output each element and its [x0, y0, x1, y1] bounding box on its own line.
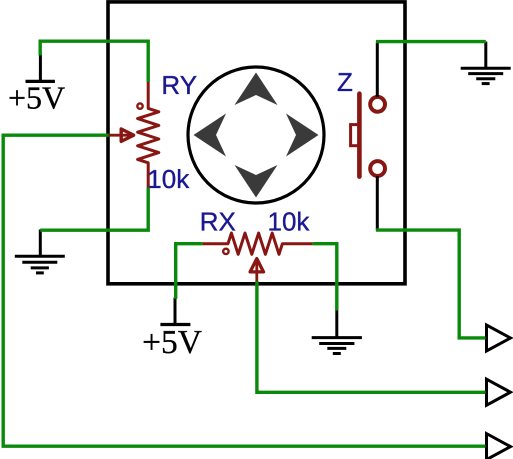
output buffer triangle 2 — [487, 379, 511, 405]
potentiometer RY body — [138, 82, 159, 188]
ground bottom-right — [312, 311, 362, 354]
wire RY wiper to left edge (green) — [3, 135, 485, 446]
pushbutton Z terminal top — [370, 97, 385, 112]
potentiometer RX body — [202, 233, 312, 254]
pushbutton Z terminal bottom — [370, 161, 385, 176]
ground left — [15, 230, 65, 273]
output buffer triangle 1 — [487, 325, 511, 351]
svg-text:10k: 10k — [268, 207, 311, 237]
wire +5V to RY top (green) — [40, 41, 148, 82]
RY wiper arrow — [109, 134, 131, 137]
RX wiper terminal dot — [223, 249, 228, 254]
RX wiper arrow — [255, 260, 258, 282]
wire Z top (black) — [376, 43, 379, 97]
svg-text:10k: 10k — [147, 164, 190, 194]
wire Z bottom (black) — [376, 176, 379, 230]
svg-text:Z: Z — [337, 67, 353, 97]
pushbutton Z button box — [351, 125, 360, 146]
svg-text:RY: RY — [161, 70, 197, 100]
power +5V top-left — [39, 54, 42, 81]
ground top-right — [461, 42, 511, 84]
wire Z top to ground (green) — [376, 40, 486, 43]
module outline — [108, 2, 405, 284]
svg-text:+5V: +5V — [142, 324, 202, 361]
wire RX wiper to output 2 (green) — [257, 281, 486, 392]
arrow down — [235, 165, 278, 198]
arrow up — [235, 73, 278, 106]
wire Z bottom to output 1 (green) — [376, 230, 486, 338]
RY wiper terminal dot — [137, 103, 142, 108]
wire RY bottom to ground (green) — [40, 188, 148, 231]
svg-text:RX: RX — [200, 206, 236, 236]
output buffer triangle 3 — [487, 434, 511, 459]
svg-text:+5V: +5V — [8, 80, 65, 116]
power +5V bottom — [174, 298, 177, 325]
pushbutton Z actuator bar — [357, 94, 362, 177]
arrow right — [286, 114, 319, 157]
joystick circle — [188, 67, 324, 203]
wire RX left to +5V (green) — [176, 244, 203, 299]
arrow left — [194, 114, 227, 157]
wire RX right to ground (green) — [313, 244, 337, 311]
